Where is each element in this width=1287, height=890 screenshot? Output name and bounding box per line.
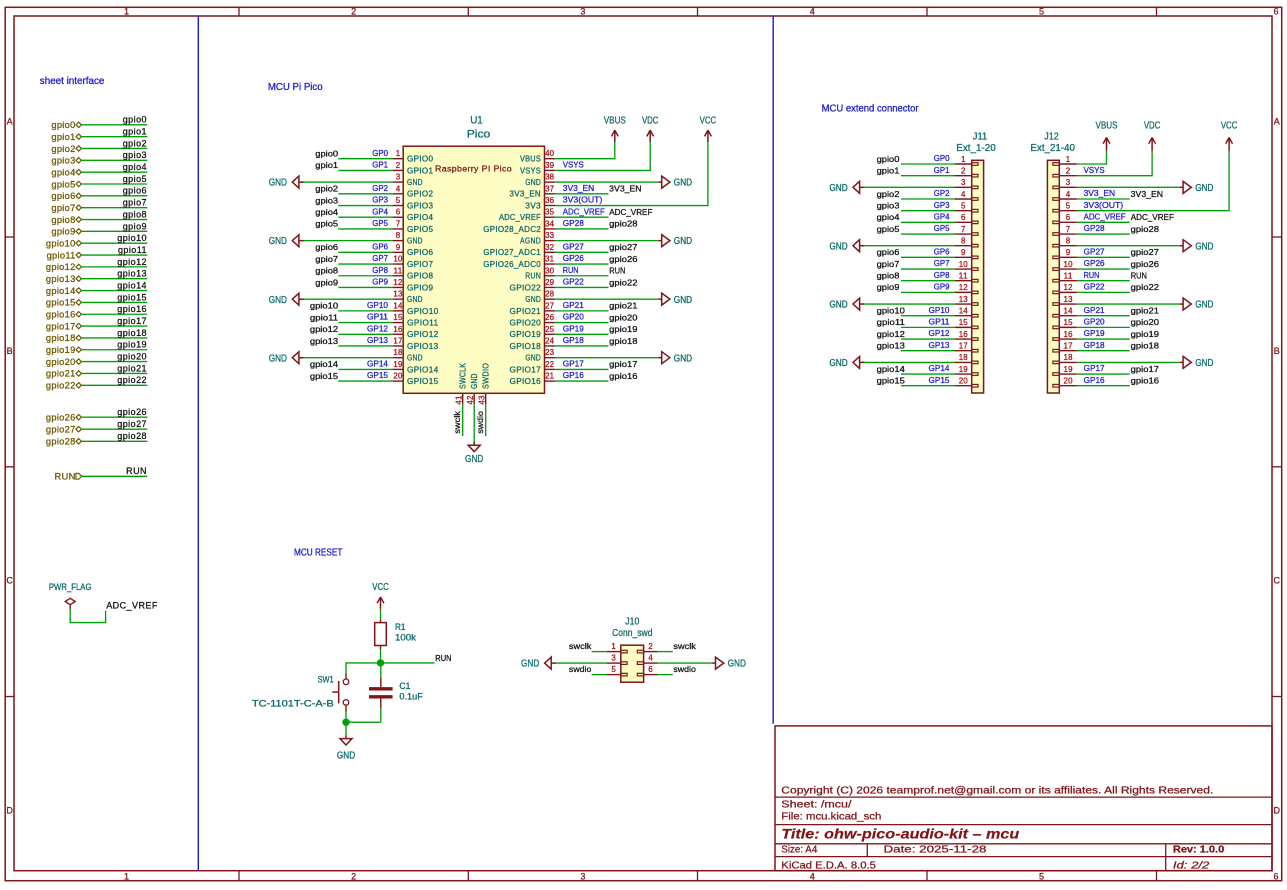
- wire GND to U1 pin 8: [302, 240, 393, 242]
- svg-text:5: 5: [1039, 7, 1044, 17]
- U1 pin 23 GND: [545, 357, 555, 359]
- svg-text:VSYS: VSYS: [520, 166, 541, 175]
- svg-text:GPIO22: GPIO22: [510, 283, 542, 292]
- svg-text:gpio18: gpio18: [46, 333, 76, 343]
- svg-text:gpio1: gpio1: [315, 160, 338, 170]
- svg-text:gpio20: gpio20: [46, 357, 76, 367]
- svg-text:4: 4: [1066, 190, 1071, 199]
- wire R1 to RUN node: [380, 649, 382, 663]
- svg-text:swclk: swclk: [569, 641, 592, 651]
- svg-text:5: 5: [611, 665, 616, 674]
- U1 pin 3 GND: [393, 181, 404, 183]
- svg-text:MCU RESET: MCU RESET: [294, 548, 342, 559]
- svg-text:3V3(OUT): 3V3(OUT): [1084, 200, 1124, 210]
- J12 pin 15: [1059, 326, 1077, 328]
- hierarchical label GND J11: [853, 240, 860, 252]
- J11 pin 7: [955, 233, 972, 235]
- svg-text:gpio10: gpio10: [46, 239, 76, 249]
- svg-text:20: 20: [393, 372, 403, 381]
- svg-text:8: 8: [961, 236, 966, 245]
- svg-text:gpio28: gpio28: [117, 431, 147, 441]
- svg-text:GP7: GP7: [934, 258, 950, 268]
- wire U1 pin 36 to VCC: [555, 142, 708, 206]
- svg-text:gpio7: gpio7: [315, 254, 338, 264]
- svg-text:VSYS: VSYS: [1084, 165, 1105, 175]
- wire gpio13 to U1 pin 17: [338, 345, 392, 347]
- svg-text:gpio10: gpio10: [310, 301, 338, 311]
- wire gpio13: [81, 278, 147, 280]
- svg-text:GP27: GP27: [1084, 246, 1105, 256]
- svg-text:RUN: RUN: [563, 265, 579, 275]
- svg-text:3V3_EN: 3V3_EN: [563, 183, 595, 193]
- svg-text:13: 13: [959, 295, 969, 304]
- svg-text:gpio1: gpio1: [877, 165, 900, 175]
- svg-text:15: 15: [1064, 318, 1074, 327]
- svg-text:GPIO14: GPIO14: [407, 365, 439, 374]
- wire VCC to R1: [380, 609, 382, 620]
- svg-text:GND: GND: [525, 178, 541, 187]
- svg-text:GP26: GP26: [563, 253, 584, 263]
- svg-text:33: 33: [545, 231, 555, 240]
- svg-text:swdio: swdio: [569, 664, 592, 674]
- U1 pin 5 GPIO3: [393, 205, 404, 207]
- wire gpio9 to U1 pin 12: [338, 286, 392, 288]
- wire gpio0 to U1 pin 1: [338, 158, 392, 160]
- svg-text:gpio6: gpio6: [123, 186, 147, 196]
- svg-text:swclk: swclk: [673, 641, 696, 651]
- wire swclk to J10 pin 1: [592, 651, 607, 653]
- wire gpio26: [81, 416, 147, 418]
- svg-text:gpio28: gpio28: [46, 437, 76, 447]
- svg-text:GPIO28_ADC2: GPIO28_ADC2: [483, 225, 541, 234]
- svg-text:gpio14: gpio14: [117, 280, 147, 290]
- wire U1 pin 38 to GND: [555, 181, 658, 183]
- svg-text:AGND: AGND: [520, 237, 541, 246]
- svg-text:GP12: GP12: [367, 323, 388, 333]
- wire gpio21: [81, 372, 147, 374]
- power symbol VCC J12: [1228, 138, 1230, 151]
- svg-text:6: 6: [1273, 872, 1278, 882]
- svg-text:gpio22: gpio22: [1131, 282, 1159, 292]
- svg-text:GP10: GP10: [929, 305, 950, 315]
- svg-text:B: B: [1274, 346, 1280, 356]
- svg-text:gpio7: gpio7: [877, 259, 900, 269]
- svg-text:26: 26: [545, 313, 555, 322]
- svg-text:GND: GND: [407, 354, 423, 363]
- svg-text:1: 1: [611, 642, 616, 651]
- svg-text:4: 4: [810, 872, 815, 882]
- svg-text:VCC: VCC: [372, 582, 389, 593]
- svg-text:C1: C1: [399, 681, 410, 691]
- svg-text:16: 16: [393, 325, 403, 334]
- svg-text:GP4: GP4: [934, 211, 950, 221]
- wire GND to J10 pin 3: [556, 662, 607, 664]
- svg-text:6: 6: [1273, 7, 1278, 17]
- J12 pin 12: [1059, 291, 1077, 293]
- wire J12 pin 2 to VDC: [1077, 151, 1152, 176]
- svg-text:36: 36: [545, 196, 555, 205]
- svg-text:J11: J11: [973, 131, 987, 142]
- U1 pin 13 GND: [393, 298, 404, 300]
- svg-text:GND: GND: [1195, 358, 1213, 369]
- wire gpio8: [81, 219, 147, 221]
- svg-text:GP11: GP11: [929, 316, 950, 326]
- wire U1 pin 32 to gpio27: [555, 251, 609, 253]
- wire GND to J11 pin 18: [863, 361, 955, 363]
- svg-text:gpio16: gpio16: [1131, 376, 1159, 386]
- svg-text:19: 19: [959, 365, 969, 374]
- J12 pin 1: [1059, 163, 1077, 165]
- U1 pin 40 VBUS: [545, 158, 555, 160]
- U1 pin 43 SWDIO: [485, 393, 487, 404]
- svg-text:34: 34: [545, 219, 555, 228]
- svg-text:3: 3: [396, 173, 401, 182]
- svg-text:GPIO20: GPIO20: [510, 318, 542, 327]
- svg-text:12: 12: [1064, 283, 1074, 292]
- svg-text:9: 9: [396, 243, 401, 252]
- svg-text:GPIO4: GPIO4: [407, 213, 434, 222]
- svg-text:GND: GND: [521, 659, 539, 670]
- svg-text:GND: GND: [728, 659, 746, 670]
- svg-text:gpio27: gpio27: [1131, 247, 1159, 257]
- svg-text:gpio21: gpio21: [117, 363, 147, 373]
- wire gpio12: [81, 266, 147, 268]
- svg-text:17: 17: [1064, 342, 1074, 351]
- svg-text:14: 14: [1064, 307, 1074, 316]
- svg-text:GPIO11: GPIO11: [407, 318, 439, 327]
- wire J12 pin 20 to gpio16: [1077, 385, 1130, 387]
- svg-text:gpio5: gpio5: [315, 219, 338, 229]
- svg-text:GND: GND: [525, 354, 541, 363]
- svg-text:gpio5: gpio5: [51, 179, 75, 189]
- svg-text:ADC_VREF: ADC_VREF: [499, 213, 541, 222]
- J10 pin 2: [644, 651, 658, 653]
- svg-text:3V3_EN: 3V3_EN: [1131, 189, 1163, 199]
- svg-text:13: 13: [393, 290, 403, 299]
- svg-text:3V3_EN: 3V3_EN: [609, 184, 641, 194]
- svg-text:17: 17: [393, 336, 403, 345]
- svg-text:9: 9: [961, 248, 966, 257]
- svg-text:gpio19: gpio19: [1131, 329, 1159, 339]
- wire gpio19: [81, 349, 147, 351]
- J11 pin 5: [955, 210, 972, 212]
- svg-text:GP0: GP0: [372, 148, 388, 158]
- svg-text:RUN: RUN: [609, 266, 625, 276]
- svg-text:gpio16: gpio16: [46, 310, 76, 320]
- wire GND node down: [345, 722, 347, 735]
- U1 pin 9 GPIO6: [393, 251, 404, 253]
- svg-text:1: 1: [124, 7, 129, 17]
- wire J12 pin 12 to gpio22: [1077, 291, 1130, 293]
- svg-text:gpio12: gpio12: [310, 324, 338, 334]
- wire GND to U1 pin 18: [302, 357, 393, 359]
- svg-text:VCC: VCC: [1221, 121, 1238, 132]
- wire RUN node to SW1: [346, 663, 381, 673]
- svg-text:ADC_VREF: ADC_VREF: [1084, 211, 1126, 221]
- svg-text:gpio18: gpio18: [609, 336, 637, 346]
- wire gpio4: [81, 171, 147, 173]
- svg-text:5: 5: [961, 201, 966, 210]
- wire U1 pin 25 to gpio19: [555, 333, 609, 335]
- svg-text:GP15: GP15: [929, 375, 950, 385]
- svg-text:GP9: GP9: [372, 277, 388, 287]
- svg-text:SWCLK: SWCLK: [459, 362, 468, 389]
- svg-text:gpio21: gpio21: [609, 301, 637, 311]
- svg-text:VBUS: VBUS: [1096, 121, 1118, 132]
- wire gpio17: [81, 325, 147, 327]
- wire gpio0 to J11 pin 1: [901, 163, 955, 165]
- svg-text:GPIO3: GPIO3: [407, 201, 434, 210]
- svg-text:29: 29: [545, 278, 555, 287]
- svg-text:GP6: GP6: [372, 241, 388, 251]
- svg-text:Raspberry PI Pico: Raspberry PI Pico: [435, 163, 512, 173]
- J12 pin 4: [1059, 198, 1077, 200]
- J11 pin 18: [955, 361, 972, 363]
- svg-text:Title: ohw-pico-audio-kit – mc: Title: ohw-pico-audio-kit – mcu: [781, 825, 1020, 841]
- svg-text:gpio0: gpio0: [123, 115, 147, 125]
- U1 pin 2 GPIO1: [393, 169, 404, 171]
- svg-text:8: 8: [396, 231, 401, 240]
- J12 pin 2: [1059, 175, 1077, 177]
- J12 pin 9: [1059, 256, 1077, 258]
- svg-text:GND: GND: [525, 295, 541, 304]
- svg-text:RUN: RUN: [55, 472, 76, 482]
- svg-text:2: 2: [351, 872, 356, 882]
- svg-text:A: A: [1274, 117, 1280, 127]
- U1 pin 24 GPIO18: [545, 345, 555, 347]
- wire PWR_FLAG to ADC_VREF: [70, 610, 105, 623]
- svg-text:Sheet: /mcu/: Sheet: /mcu/: [781, 799, 851, 811]
- wire gpio5 to U1 pin 7: [338, 228, 392, 230]
- resistor R1: [380, 619, 382, 622]
- wire gpio6: [81, 195, 147, 197]
- svg-text:14: 14: [393, 301, 403, 310]
- svg-text:GND: GND: [269, 295, 287, 306]
- svg-text:25: 25: [545, 325, 555, 334]
- svg-text:13: 13: [1064, 295, 1074, 304]
- wire gpio15: [81, 301, 147, 303]
- power symbol VCC: [707, 130, 709, 142]
- svg-text:GP21: GP21: [563, 300, 584, 310]
- J10 pin 3: [607, 662, 621, 664]
- U1 pin 37 3V3_EN: [545, 193, 555, 195]
- connector J12 body: [1047, 160, 1059, 393]
- svg-text:GPIO19: GPIO19: [510, 330, 542, 339]
- J11 pin 17: [955, 350, 972, 352]
- svg-text:ADC_VREF: ADC_VREF: [1131, 212, 1174, 222]
- svg-text:gpio5: gpio5: [123, 174, 147, 184]
- svg-text:GND: GND: [470, 373, 479, 389]
- wire gpio6 to J11 pin 9: [901, 256, 955, 258]
- svg-text:GP16: GP16: [563, 370, 584, 380]
- svg-text:gpio17: gpio17: [46, 321, 76, 331]
- svg-text:VSYS: VSYS: [563, 160, 584, 170]
- svg-text:21: 21: [545, 372, 555, 381]
- wire gpio5: [81, 183, 147, 185]
- svg-text:gpio19: gpio19: [46, 345, 76, 355]
- svg-text:gpio17: gpio17: [117, 316, 147, 326]
- U1 pin 10 GPIO7: [393, 263, 404, 265]
- wire U1 pin 31 to gpio26: [555, 263, 609, 265]
- svg-text:C: C: [6, 576, 13, 586]
- wire GND node to C1: [346, 721, 381, 723]
- svg-text:35: 35: [545, 208, 555, 217]
- svg-text:GPIO16: GPIO16: [510, 377, 542, 386]
- svg-text:GP19: GP19: [563, 323, 584, 333]
- svg-text:38: 38: [545, 173, 555, 182]
- wire gpio4 to J11 pin 6: [901, 221, 955, 223]
- svg-text:gpio14: gpio14: [46, 286, 76, 296]
- svg-text:gpio20: gpio20: [1131, 317, 1159, 327]
- svg-text:18: 18: [393, 348, 403, 357]
- hierarchical label GND J12: [1180, 186, 1183, 188]
- svg-text:GP18: GP18: [1084, 340, 1105, 350]
- U1 pin 1 GPIO0: [393, 158, 404, 160]
- wire swclk: [462, 404, 464, 436]
- svg-text:GP20: GP20: [1084, 316, 1105, 326]
- wire J12 pin 10 to gpio26: [1077, 268, 1130, 270]
- J11 pin 13: [955, 303, 972, 305]
- wire gpio0: [81, 124, 147, 126]
- svg-text:VCC: VCC: [700, 115, 717, 126]
- section separator line right: [772, 16, 774, 724]
- svg-text:42: 42: [466, 395, 475, 405]
- svg-text:23: 23: [545, 348, 555, 357]
- U1 pin 33 AGND: [545, 240, 555, 242]
- svg-text:swdio: swdio: [475, 411, 485, 434]
- svg-text:RUN: RUN: [525, 272, 541, 281]
- power symbol VCC reset: [380, 597, 382, 609]
- svg-text:J12: J12: [1044, 131, 1058, 142]
- svg-text:20: 20: [959, 377, 969, 386]
- J11 pin 8: [955, 245, 972, 247]
- svg-text:GPIO26_ADC0: GPIO26_ADC0: [483, 260, 541, 269]
- svg-text:D: D: [6, 806, 13, 816]
- svg-text:GP3: GP3: [934, 200, 950, 210]
- J12 pin 18: [1059, 361, 1077, 363]
- svg-text:gpio18: gpio18: [1131, 341, 1159, 351]
- svg-text:gpio4: gpio4: [51, 167, 75, 177]
- svg-text:6: 6: [961, 213, 966, 222]
- svg-text:GP1: GP1: [372, 160, 388, 170]
- svg-text:gpio7: gpio7: [123, 198, 147, 208]
- wire gpio2: [81, 147, 147, 149]
- J10 pin 6: [644, 674, 658, 676]
- wire gpio13 to J11 pin 17: [901, 350, 955, 352]
- U1 pin 29 GPIO22: [545, 286, 555, 288]
- svg-text:2: 2: [1066, 166, 1071, 175]
- svg-text:gpio2: gpio2: [877, 189, 900, 199]
- J10 pin 4: [644, 662, 658, 664]
- svg-text:3: 3: [1066, 178, 1071, 187]
- wire J12 pin 13 to GND: [1077, 303, 1180, 305]
- J11 pin 11: [955, 280, 972, 282]
- wire gpio16: [81, 313, 147, 315]
- U1 pin 30 RUN: [545, 275, 555, 277]
- svg-text:gpio22: gpio22: [46, 381, 76, 391]
- svg-text:gpio8: gpio8: [315, 266, 338, 276]
- svg-text:gpio3: gpio3: [123, 150, 147, 160]
- wire J12 pin 18 to GND: [1077, 361, 1180, 363]
- U1 pin 25 GPIO19: [545, 333, 555, 335]
- svg-text:gpio3: gpio3: [877, 200, 900, 210]
- svg-text:GPIO21: GPIO21: [510, 307, 542, 316]
- svg-text:gpio20: gpio20: [609, 312, 637, 322]
- wire gpio28: [81, 440, 147, 442]
- U1 pin 28 GND: [545, 298, 555, 300]
- svg-text:19: 19: [393, 360, 403, 369]
- svg-text:PWR_FLAG: PWR_FLAG: [49, 582, 92, 592]
- svg-text:GND: GND: [674, 353, 692, 364]
- ground GND below U1: [473, 442, 475, 446]
- svg-text:gpio3: gpio3: [51, 156, 75, 166]
- svg-text:39: 39: [545, 161, 555, 170]
- svg-text:GPIO8: GPIO8: [407, 272, 434, 281]
- svg-text:31: 31: [545, 255, 555, 264]
- J12 pin 17: [1059, 350, 1077, 352]
- svg-text:gpio27: gpio27: [46, 425, 76, 435]
- U1 pin 31 GPIO26_ADC0: [545, 263, 555, 265]
- svg-text:gpio14: gpio14: [310, 359, 338, 369]
- svg-text:gpio6: gpio6: [315, 242, 338, 252]
- svg-text:gpio11: gpio11: [877, 317, 905, 327]
- hierarchical label GND J10 right: [712, 662, 715, 664]
- wire J12 pin 5 to VCC: [1077, 151, 1229, 211]
- wire U1 pin 30 to RUN: [555, 275, 609, 277]
- svg-text:GP13: GP13: [367, 335, 388, 345]
- J11 pin 6: [955, 221, 972, 223]
- J11 pin 9: [955, 256, 972, 258]
- svg-text:J10: J10: [625, 616, 640, 627]
- svg-text:GP18: GP18: [563, 335, 584, 345]
- power symbol VBUS J12: [1106, 138, 1108, 151]
- svg-text:GND: GND: [1195, 300, 1213, 311]
- svg-text:5: 5: [1039, 872, 1044, 882]
- wire gpio27: [81, 428, 147, 430]
- svg-text:GND: GND: [1195, 183, 1213, 194]
- wire gpio14 to U1 pin 19: [338, 368, 392, 370]
- svg-text:GP16: GP16: [1084, 375, 1105, 385]
- J12 pin 6: [1059, 221, 1077, 223]
- U1 pin 19 GPIO14: [393, 368, 404, 370]
- wire U1 pin 29 to gpio22: [555, 286, 609, 288]
- svg-text:GP0: GP0: [934, 153, 950, 163]
- hierarchical label GND J12: [1180, 303, 1183, 305]
- svg-text:gpio26: gpio26: [1131, 259, 1159, 269]
- svg-text:11: 11: [959, 272, 969, 281]
- wire GND to J11 pin 13: [863, 303, 955, 305]
- svg-text:GP19: GP19: [1084, 328, 1105, 338]
- svg-text:GP28: GP28: [563, 218, 584, 228]
- wire J10 pin 6 to swdio: [658, 674, 673, 676]
- J12 pin 14: [1059, 315, 1077, 317]
- svg-text:18: 18: [1064, 353, 1074, 362]
- U1 pin 14 GPIO10: [393, 310, 404, 312]
- svg-text:gpio11: gpio11: [47, 250, 76, 260]
- svg-text:gpio9: gpio9: [123, 221, 147, 231]
- svg-text:gpio0: gpio0: [315, 149, 338, 159]
- U1 pin 36 3V3: [545, 205, 555, 207]
- svg-text:12: 12: [393, 278, 403, 287]
- svg-text:GPIO13: GPIO13: [407, 342, 439, 351]
- svg-text:GP13: GP13: [929, 340, 950, 350]
- svg-text:gpio4: gpio4: [877, 212, 900, 222]
- wire gpio12 to J11 pin 16: [901, 338, 955, 340]
- wire J12 pin 8 to GND: [1077, 245, 1180, 247]
- wire J12 pin 19 to gpio17: [1077, 373, 1130, 375]
- wire gpio22: [81, 384, 147, 386]
- wire gpio9: [81, 230, 147, 232]
